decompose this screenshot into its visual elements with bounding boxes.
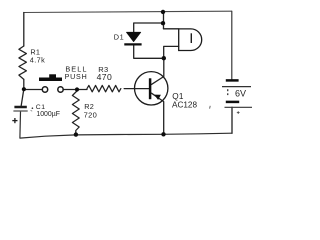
wire R1 to node A <box>23 79 25 89</box>
stray mark <box>209 106 212 109</box>
wire bottom rail <box>20 112 232 139</box>
svg-text:470: 470 <box>97 72 113 82</box>
battery BT1 plate positive bottom <box>225 106 253 108</box>
C1 polarity plus <box>12 118 17 123</box>
bell <box>179 29 202 51</box>
node B junction dot <box>75 87 79 91</box>
wire battery to bottom rail <box>231 107 233 133</box>
transistor Q1 emitter arrow <box>154 95 161 100</box>
wire battery right side <box>231 11 233 79</box>
wire left side top <box>23 13 25 47</box>
capacitor C1 <box>13 107 27 111</box>
resistor R3 <box>87 85 121 91</box>
battery BT1 plate negative top <box>226 79 239 82</box>
svg-text:D1: D1 <box>114 32 124 41</box>
colon marks before 6V <box>227 89 228 95</box>
svg-text:C1: C1 <box>36 104 46 111</box>
wire collector to transistor <box>152 58 164 84</box>
resistor R2 <box>72 91 79 135</box>
wire top rail <box>24 11 232 12</box>
switch BELL PUSH button cap <box>39 74 62 81</box>
svg-text:PUSH: PUSH <box>65 73 88 81</box>
node D1 top junction dot <box>161 21 165 25</box>
wire D1 top branch <box>134 23 164 32</box>
transistor Q1 base bar <box>149 78 152 99</box>
node R2 bottom junction dot <box>74 132 78 136</box>
node A junction dot <box>22 87 26 91</box>
node collector junction dot <box>162 56 166 60</box>
node emitter bottom junction dot <box>161 132 165 136</box>
diode D1 <box>124 32 141 44</box>
wire collector vertical <box>163 12 165 29</box>
battery polarity plus small <box>237 111 240 114</box>
wire node A to switch <box>24 89 42 91</box>
svg-text:6V: 6V <box>235 88 246 98</box>
svg-text:AC128: AC128 <box>172 101 197 110</box>
wire bell top terminal <box>164 28 179 30</box>
wire node A to capacitor C1 <box>21 89 24 106</box>
switch BELL PUSH terminal right <box>58 87 63 92</box>
battery BT1 plate positive top <box>222 86 251 88</box>
wire emitter to bottom rail <box>152 93 164 134</box>
wire switch to node B <box>63 89 87 91</box>
battery BT1 plate negative bottom <box>226 101 239 104</box>
resistor R1 <box>19 46 27 79</box>
wire D1 bottom branch <box>134 45 164 58</box>
wire R3 to transistor base <box>124 88 149 90</box>
transistor Q1 body <box>135 72 168 105</box>
switch BELL PUSH terminal left <box>42 87 47 92</box>
wire bell bottom terminal <box>164 46 179 58</box>
svg-text:720: 720 <box>84 111 98 120</box>
svg-text:1000µF: 1000µF <box>36 111 60 118</box>
node top rail junction dot <box>161 10 165 14</box>
speck near C1 <box>32 107 34 109</box>
svg-text:4.7k: 4.7k <box>30 55 45 64</box>
